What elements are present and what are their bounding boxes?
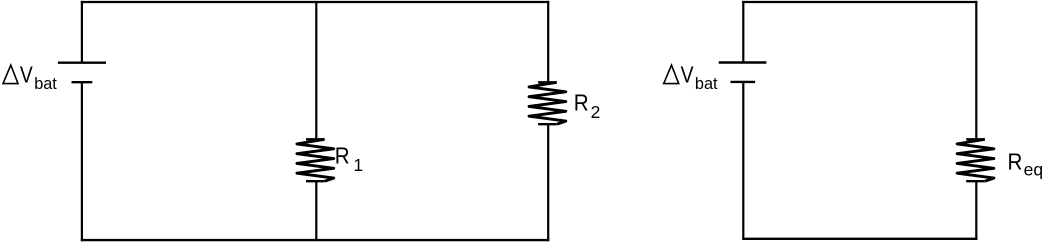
label ΔV_bat (right): delta triangle [664,65,679,84]
wire: bottom rail (left circuit) [81,239,550,241]
label ΔV_bat (left): delta triangle [3,65,18,84]
svg-text:bat: bat [34,75,57,93]
wire: left branch lower (battery - to bottom rail) [81,82,83,241]
wire: top rail (right circuit) [742,1,977,3]
battery ΔV_bat (left circuit) long plate [58,62,106,64]
wire: left branch upper (top rail to battery +) [81,1,83,63]
svg-text:R: R [574,90,589,116]
svg-text:R: R [335,142,350,168]
battery ΔV_bat (right circuit) short plate [731,81,756,83]
svg-text:V: V [681,61,694,87]
svg-text:R: R [1008,149,1023,175]
svg-text:2: 2 [591,102,601,122]
wire: right branch upper (top rail to R2) [547,1,549,82]
wire: left branch lower (battery - to bottom rail, right circuit) [742,82,744,240]
wire: right branch upper (top rail to Req) [975,1,977,139]
wire: middle branch lower (R1 to bottom rail) [315,181,317,240]
svg-text:eq: eq [1024,160,1042,180]
wire: right branch lower (Req to bottom rail) [975,181,977,240]
wire: top rail (left circuit) [81,1,550,3]
wire: left branch upper (top rail to battery +, right circuit) [742,1,744,63]
wire: middle branch upper (top rail to R1) [315,2,317,139]
wire: right branch lower (R2 to bottom rail) [547,124,549,241]
resistor R1 [297,139,334,181]
svg-text:1: 1 [353,155,363,175]
battery ΔV_bat (right circuit) long plate [719,61,767,63]
resistor R2 [529,82,566,124]
wire: bottom rail (right circuit) [742,238,977,240]
resistor Req [957,139,994,181]
svg-text:bat: bat [695,75,718,93]
svg-text:V: V [20,61,33,87]
battery ΔV_bat (left circuit) short plate [72,81,93,83]
